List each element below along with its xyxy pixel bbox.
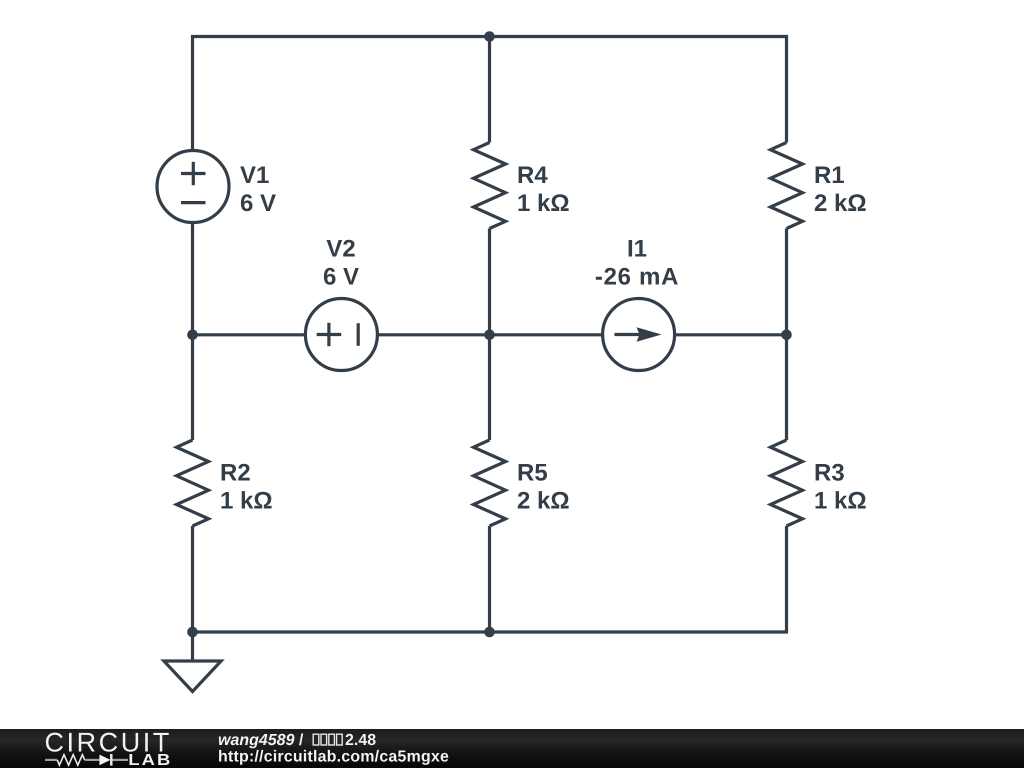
label V2 designator and value <box>324 240 359 285</box>
wire bottom horizontal <box>193 630 789 633</box>
CircuitLab logo diode triangle <box>99 755 110 766</box>
resistor R2 <box>177 440 209 526</box>
footer bar <box>0 729 1024 768</box>
wire middle horizontal <box>193 333 787 336</box>
label R3 designator and value <box>816 464 866 509</box>
wire right column R1-to-node <box>785 229 788 441</box>
current source I1 arrowhead <box>637 327 662 342</box>
current source I1 <box>603 299 675 371</box>
wire middle column R4-to-node <box>488 229 491 441</box>
node junction middle left <box>187 330 198 341</box>
voltage source V1 <box>157 151 229 223</box>
CircuitLab logo LAB text <box>130 754 170 765</box>
footer title author name <box>219 734 295 749</box>
footer title tofu boxes <box>313 734 342 745</box>
wire top horizontal <box>191 35 788 38</box>
node junction middle center <box>484 330 495 341</box>
footer title number <box>346 734 376 745</box>
footer title separator slash <box>299 733 303 745</box>
resistor R5 <box>474 440 506 526</box>
label I1 designator and value <box>596 240 678 285</box>
voltage source V2 <box>305 299 377 371</box>
wire right column below R3 <box>785 526 788 633</box>
label R5 designator and value <box>518 464 569 509</box>
label R1 designator and value <box>815 167 866 212</box>
wire left column V1-to-node segment <box>191 221 194 440</box>
ground <box>164 632 221 692</box>
wire left column top segment <box>191 35 194 152</box>
label V1 designator and value <box>240 167 276 212</box>
wire left column below R2 segment <box>191 526 194 633</box>
CircuitLab logo CIRCUIT wordmark <box>46 733 169 752</box>
footer url line <box>219 750 448 765</box>
label R4 designator and value <box>519 167 569 212</box>
wire middle column below R5 <box>488 526 491 633</box>
node junction middle right <box>781 330 792 341</box>
resistor R4 <box>474 143 506 229</box>
CircuitLab logo schematic glyph wire and resistor <box>45 754 128 766</box>
node junction bottom left <box>187 627 198 638</box>
resistor R3 <box>771 440 803 526</box>
label R2 designator and value <box>222 464 272 509</box>
resistor R1 <box>771 143 803 229</box>
wire middle column above R4 <box>488 35 491 143</box>
wire right column above R1 <box>785 35 788 143</box>
node junction bottom middle <box>484 627 495 638</box>
node junction top middle <box>484 31 495 42</box>
